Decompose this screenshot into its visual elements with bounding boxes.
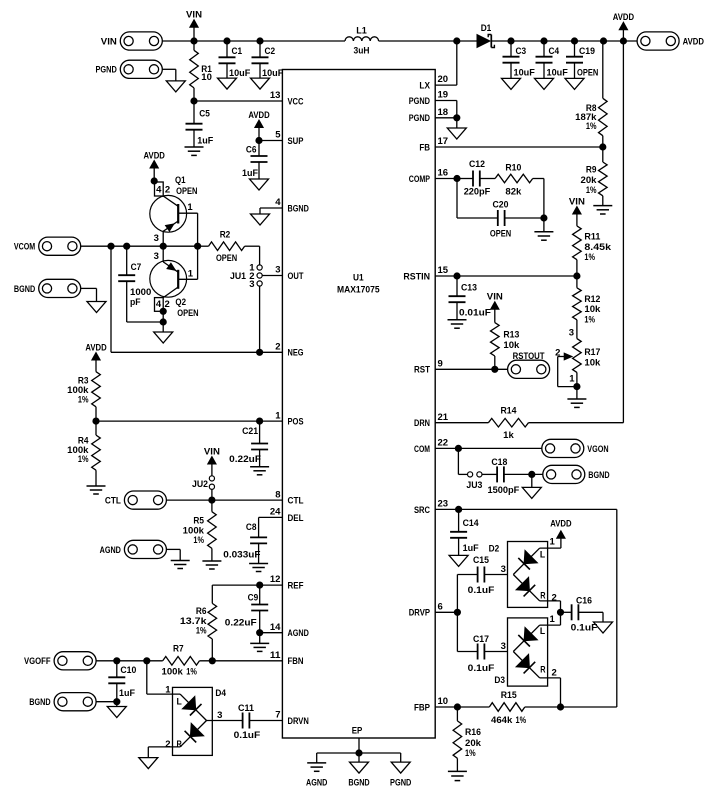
svg-text:C15: C15 — [473, 555, 490, 566]
svg-text:JU1: JU1 — [230, 271, 247, 282]
svg-text:C5: C5 — [199, 108, 210, 119]
svg-text:1: 1 — [550, 537, 556, 548]
svg-text:FBN: FBN — [288, 656, 304, 667]
svg-text:DRVN: DRVN — [288, 716, 309, 727]
svg-text:REF: REF — [288, 581, 304, 592]
svg-text:2: 2 — [552, 668, 557, 679]
svg-text:R10: R10 — [505, 162, 521, 173]
svg-text:RST: RST — [414, 365, 430, 376]
svg-text:20: 20 — [438, 74, 449, 85]
svg-text:1uF: 1uF — [119, 688, 135, 699]
svg-text:3: 3 — [501, 641, 506, 652]
svg-text:U1: U1 — [353, 273, 364, 284]
svg-text:OPEN: OPEN — [216, 253, 237, 264]
svg-text:464k: 464k — [491, 715, 513, 726]
svg-text:11: 11 — [270, 650, 281, 661]
svg-text:Q2: Q2 — [175, 297, 186, 308]
svg-text:4: 4 — [275, 197, 281, 208]
svg-text:3: 3 — [501, 564, 506, 575]
svg-text:10uF: 10uF — [547, 67, 568, 78]
svg-text:R13: R13 — [503, 329, 519, 340]
svg-text:COM: COM — [414, 444, 430, 455]
svg-text:R: R — [540, 665, 545, 676]
svg-text:16: 16 — [438, 168, 449, 179]
svg-text:1%: 1% — [78, 454, 89, 465]
svg-text:0.22uF: 0.22uF — [225, 618, 257, 629]
svg-text:24: 24 — [270, 507, 281, 518]
svg-text:OPEN: OPEN — [490, 228, 511, 239]
svg-text:3: 3 — [154, 233, 159, 244]
svg-text:VIN: VIN — [101, 36, 117, 47]
svg-text:JU3: JU3 — [466, 480, 482, 491]
svg-text:82k: 82k — [505, 187, 522, 198]
svg-text:D1: D1 — [481, 23, 492, 34]
svg-text:0.033uF: 0.033uF — [223, 550, 260, 561]
svg-text:3: 3 — [154, 251, 159, 262]
svg-text:POS: POS — [288, 417, 304, 428]
svg-text:pF: pF — [130, 297, 141, 308]
svg-text:10uF: 10uF — [514, 67, 535, 78]
svg-text:PGND: PGND — [409, 96, 430, 107]
svg-text:10k: 10k — [584, 358, 601, 369]
svg-text:21: 21 — [438, 412, 449, 423]
svg-text:BGND: BGND — [348, 777, 369, 788]
svg-text:1%: 1% — [186, 667, 197, 678]
svg-text:10: 10 — [438, 696, 449, 707]
svg-text:C8: C8 — [246, 522, 257, 533]
svg-text:C3: C3 — [516, 46, 527, 57]
svg-text:3: 3 — [569, 328, 574, 339]
svg-text:23: 23 — [438, 499, 449, 510]
svg-text:AVDD: AVDD — [613, 12, 634, 23]
svg-text:C4: C4 — [549, 46, 560, 57]
svg-text:AVDD: AVDD — [144, 150, 165, 161]
svg-text:0.1uF: 0.1uF — [571, 623, 598, 634]
svg-text:C7: C7 — [131, 262, 142, 273]
svg-text:1: 1 — [275, 410, 281, 421]
svg-text:BGND: BGND — [14, 284, 35, 295]
svg-text:L: L — [540, 550, 545, 561]
svg-text:C20: C20 — [493, 200, 509, 211]
svg-text:RSTIN: RSTIN — [403, 271, 430, 282]
svg-text:1%: 1% — [586, 185, 597, 196]
svg-text:LX: LX — [419, 80, 430, 91]
svg-text:VGOFF: VGOFF — [24, 656, 51, 667]
svg-text:DEL: DEL — [288, 513, 304, 524]
svg-text:AGND: AGND — [100, 545, 121, 556]
svg-text:D4: D4 — [215, 688, 226, 699]
svg-text:L: L — [540, 626, 545, 637]
svg-text:1%: 1% — [584, 314, 595, 325]
svg-text:OPEN: OPEN — [177, 308, 198, 319]
svg-text:R2: R2 — [220, 229, 231, 240]
svg-text:VCOM: VCOM — [14, 242, 35, 253]
svg-text:9: 9 — [438, 359, 443, 370]
svg-text:COMP: COMP — [409, 174, 431, 185]
svg-text:15: 15 — [438, 265, 449, 276]
svg-text:VIN: VIN — [186, 10, 202, 21]
svg-text:RSTOUT: RSTOUT — [513, 351, 545, 362]
svg-text:0.01uF: 0.01uF — [459, 308, 491, 319]
svg-text:7: 7 — [275, 710, 280, 721]
svg-text:10k: 10k — [503, 340, 520, 351]
svg-text:1uF: 1uF — [197, 136, 213, 147]
svg-text:4: 4 — [156, 185, 162, 196]
svg-text:19: 19 — [438, 90, 449, 101]
svg-text:VCC: VCC — [288, 96, 304, 107]
svg-text:13: 13 — [270, 90, 281, 101]
svg-text:Q1: Q1 — [175, 175, 186, 186]
svg-text:VIN: VIN — [487, 292, 503, 303]
svg-text:2: 2 — [165, 739, 170, 750]
svg-text:AVDD: AVDD — [85, 342, 106, 353]
svg-text:R14: R14 — [501, 405, 518, 416]
svg-text:AVDD: AVDD — [683, 36, 704, 47]
svg-text:1: 1 — [550, 614, 556, 625]
svg-text:VIN: VIN — [204, 446, 220, 457]
svg-text:R: R — [177, 739, 182, 750]
svg-text:D2: D2 — [489, 544, 500, 555]
svg-text:AGND: AGND — [306, 777, 327, 788]
svg-text:D3: D3 — [494, 675, 505, 686]
svg-text:0.1uF: 0.1uF — [468, 663, 495, 674]
svg-text:1: 1 — [188, 269, 194, 280]
svg-text:1uF: 1uF — [463, 543, 479, 554]
svg-text:VGON: VGON — [587, 444, 608, 455]
svg-text:3: 3 — [249, 279, 254, 290]
svg-text:1%: 1% — [584, 252, 595, 263]
svg-text:1500pF: 1500pF — [487, 485, 519, 496]
svg-text:1%: 1% — [465, 748, 476, 759]
svg-text:R17: R17 — [584, 347, 600, 358]
svg-text:17: 17 — [438, 136, 449, 147]
svg-text:1: 1 — [165, 684, 171, 695]
svg-text:PGND: PGND — [409, 113, 430, 124]
svg-text:CTL: CTL — [105, 496, 121, 507]
svg-text:2: 2 — [552, 592, 557, 603]
svg-text:12: 12 — [270, 574, 281, 585]
svg-text:8: 8 — [275, 489, 280, 500]
svg-text:C14: C14 — [463, 518, 480, 529]
svg-text:C19: C19 — [579, 46, 595, 57]
svg-text:0.22uF: 0.22uF — [229, 454, 261, 465]
svg-text:1k: 1k — [503, 430, 514, 441]
svg-text:BGND: BGND — [288, 203, 309, 214]
svg-text:DRN: DRN — [414, 418, 430, 429]
svg-text:OPEN: OPEN — [577, 67, 598, 78]
svg-text:FBP: FBP — [414, 702, 431, 713]
svg-text:6: 6 — [438, 601, 443, 612]
svg-text:BGND: BGND — [588, 470, 609, 481]
svg-text:2: 2 — [165, 299, 170, 310]
svg-text:PGND: PGND — [390, 777, 411, 788]
svg-text:22: 22 — [438, 438, 449, 449]
svg-text:L1: L1 — [356, 25, 367, 36]
svg-text:SRC: SRC — [414, 505, 430, 516]
svg-text:C17: C17 — [473, 634, 489, 645]
svg-text:100k: 100k — [162, 667, 184, 678]
svg-text:1%: 1% — [193, 535, 204, 546]
svg-text:0.1uF: 0.1uF — [234, 730, 261, 741]
svg-text:2: 2 — [165, 185, 170, 196]
svg-text:1%: 1% — [516, 715, 527, 726]
svg-text:OPEN: OPEN — [176, 186, 197, 197]
svg-text:AVDD: AVDD — [248, 110, 269, 121]
svg-text:R7: R7 — [173, 644, 184, 655]
svg-text:C18: C18 — [491, 457, 507, 468]
svg-text:10: 10 — [201, 72, 212, 83]
svg-text:AVDD: AVDD — [550, 519, 571, 530]
svg-text:L: L — [177, 697, 182, 708]
svg-text:C21: C21 — [242, 426, 259, 437]
svg-text:C9: C9 — [248, 593, 259, 604]
svg-text:R12: R12 — [584, 294, 600, 305]
svg-text:10uF: 10uF — [262, 68, 283, 79]
svg-text:MAX17075: MAX17075 — [337, 285, 380, 296]
svg-text:1uF: 1uF — [242, 168, 258, 179]
svg-text:NEG: NEG — [288, 348, 304, 359]
svg-text:1%: 1% — [196, 626, 207, 637]
svg-text:VIN: VIN — [569, 196, 585, 207]
svg-text:C10: C10 — [120, 665, 136, 676]
svg-text:4: 4 — [156, 299, 162, 310]
svg-text:SUP: SUP — [288, 136, 305, 147]
svg-text:FB: FB — [419, 142, 430, 153]
svg-text:18: 18 — [438, 107, 449, 118]
svg-text:3: 3 — [275, 265, 280, 276]
svg-text:C12: C12 — [469, 159, 485, 170]
svg-text:1%: 1% — [78, 395, 89, 406]
svg-text:C13: C13 — [461, 282, 477, 293]
svg-text:2: 2 — [275, 342, 280, 353]
svg-text:14: 14 — [270, 622, 281, 633]
svg-text:AGND: AGND — [288, 628, 309, 639]
svg-text:CTL: CTL — [288, 496, 304, 507]
svg-text:DRVP: DRVP — [409, 608, 431, 619]
svg-text:C1: C1 — [232, 46, 243, 57]
svg-text:1: 1 — [569, 374, 575, 385]
svg-text:R11: R11 — [584, 231, 601, 242]
svg-text:BGND: BGND — [29, 697, 50, 708]
svg-text:C2: C2 — [265, 46, 276, 57]
svg-text:C11: C11 — [238, 703, 255, 714]
svg-text:R: R — [540, 591, 545, 602]
svg-text:0.1uF: 0.1uF — [468, 585, 495, 596]
svg-text:1: 1 — [187, 202, 193, 213]
svg-text:3: 3 — [217, 710, 222, 721]
svg-text:PGND: PGND — [96, 65, 117, 76]
svg-text:5: 5 — [275, 130, 281, 141]
svg-text:C16: C16 — [576, 596, 592, 607]
svg-text:1%: 1% — [586, 121, 597, 132]
svg-text:3uH: 3uH — [354, 45, 370, 56]
svg-text:OUT: OUT — [288, 271, 304, 282]
svg-text:EP: EP — [352, 725, 363, 736]
svg-text:C6: C6 — [246, 144, 257, 155]
svg-text:R16: R16 — [465, 727, 481, 738]
svg-text:220pF: 220pF — [464, 187, 491, 198]
svg-text:JU2: JU2 — [192, 479, 208, 490]
svg-text:R15: R15 — [501, 690, 518, 701]
svg-text:10uF: 10uF — [229, 68, 250, 79]
svg-text:R9: R9 — [586, 164, 597, 175]
